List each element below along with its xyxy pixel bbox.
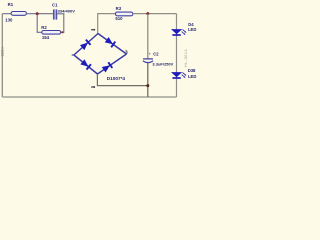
svg-text:D1007*4: D1007*4 — [107, 76, 126, 81]
svg-text:510: 510 — [115, 16, 123, 21]
capacitor C1 — [52, 2, 75, 19]
wire R1 left lead — [2, 13, 11, 15]
diode bridge edges — [74, 34, 127, 75]
svg-text:130: 130 — [5, 17, 13, 22]
diode D bottom-right — [102, 62, 113, 72]
svg-text:LED: LED — [188, 74, 196, 79]
svg-text:R1: R1 — [8, 2, 14, 7]
capacitor C2 electrolytic — [143, 51, 174, 66]
svg-text:D38: D38 — [188, 68, 196, 73]
junction node R3/C2 — [146, 12, 149, 15]
left vertex stub — [72, 54, 75, 56]
junction at R2 corner — [61, 31, 63, 33]
wire R2 left branch — [37, 14, 42, 33]
wire bridge bottom stub — [97, 74, 147, 86]
wire R2 right lead up to C1 right — [57, 14, 64, 33]
diode D bottom-left — [80, 59, 91, 70]
svg-text:3.3uF/250V: 3.3uF/250V — [152, 62, 173, 67]
svg-text:HL-3014: HL-3014 — [184, 49, 188, 67]
resistor R3 — [115, 6, 132, 21]
diode D top-left — [80, 40, 91, 51]
wire AC live left vertical — [1, 14, 3, 97]
svg-text:R3: R3 — [116, 6, 122, 11]
pin tick bottom AC — [91, 86, 95, 88]
pin tick top AC — [91, 29, 95, 31]
wire LED rail right vertical — [176, 14, 178, 97]
svg-text:C2: C2 — [153, 51, 159, 56]
svg-text:+: + — [125, 49, 128, 54]
LED D4 — [171, 22, 196, 35]
wire C2 bottom lead — [147, 63, 149, 97]
wire C2 top lead — [147, 14, 149, 59]
svg-text:LED: LED — [188, 27, 196, 32]
svg-text:R2: R2 — [41, 25, 47, 30]
svg-text:220V: 220V — [0, 47, 5, 57]
resistor R2 — [41, 25, 60, 40]
diode D top-right — [105, 37, 116, 47]
svg-text:C1: C1 — [52, 2, 58, 7]
wire bottom rail — [2, 96, 176, 98]
wire bridge top stub — [98, 14, 116, 34]
junction node at R2 branch — [36, 12, 39, 15]
junction bridge minus / C2 — [146, 84, 149, 87]
right vertex stub — [126, 51, 128, 54]
wire R3 right to LED rail — [133, 13, 177, 15]
wire R1 to C1 — [26, 13, 53, 15]
LED D38 — [171, 68, 196, 79]
resistor R1 — [5, 2, 26, 22]
svg-text:154: 154 — [42, 35, 50, 40]
svg-text:334/400V: 334/400V — [58, 9, 76, 14]
